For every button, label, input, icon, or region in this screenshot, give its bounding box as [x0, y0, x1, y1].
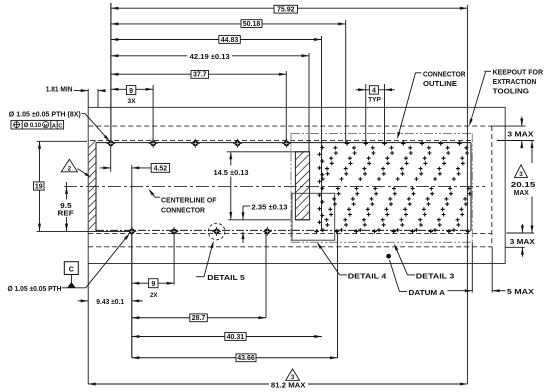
dim label 28.7	[190, 314, 208, 322]
svg-text:9.43 ±0.1: 9.43 ±0.1	[96, 297, 124, 306]
extension line right pin row bottom	[506, 232, 534, 234]
connector outline rect	[96, 142, 471, 144]
plated hole pin T3	[191, 139, 200, 148]
datum A arrow	[448, 290, 473, 292]
svg-text:C: C	[69, 267, 74, 274]
detail 4 box	[292, 193, 335, 240]
svg-text:14.5 ±0.13: 14.5 ±0.13	[214, 168, 249, 177]
dim line 43.66	[132, 357, 338, 359]
svg-text:9: 9	[151, 281, 155, 288]
dim line 20.15 MAX	[531, 141, 533, 234]
extension line from top pin 5	[285, 71, 287, 143]
svg-text:9.5: 9.5	[60, 203, 72, 210]
svg-text:3 MAX: 3 MAX	[510, 237, 535, 246]
svg-text:TYP: TYP	[368, 96, 381, 103]
dim line 9.5 REF	[66, 182, 68, 200]
dim label 81.2 MAX	[269, 379, 308, 389]
svg-text:CONNECTOR: CONNECTOR	[161, 205, 206, 214]
extension top pin1 down	[110, 143, 112, 171]
svg-text:CONNECTOR: CONNECTOR	[423, 69, 466, 78]
svg-text:4: 4	[372, 88, 376, 95]
extension stub hatch right edge up	[97, 89, 99, 107]
svg-text:37.7: 37.7	[193, 72, 207, 79]
right hatched strip (detail 4 wall)	[295, 152, 309, 220]
svg-text:40.31: 40.31	[227, 334, 245, 341]
svg-text:2: 2	[68, 166, 72, 173]
svg-text:KEEPOUT FOR: KEEPOUT FOR	[493, 68, 544, 77]
extension line right dashed bottom	[506, 246, 525, 248]
svg-text:Ø 1.05 ±0.05 PTH (8X): Ø 1.05 ±0.05 PTH (8X)	[9, 109, 82, 118]
dim line 9 3X	[111, 88, 153, 90]
plated hole pin B4	[263, 227, 272, 236]
keepout dashed line top	[90, 139, 471, 141]
svg-text:DETAIL 4: DETAIL 4	[348, 271, 387, 280]
extension line dashed edge down (5 MAX)	[491, 247, 493, 293]
svg-text:TOOLING: TOOLING	[493, 86, 530, 95]
dim line 37.7	[111, 73, 286, 75]
svg-text:DETAIL 3: DETAIL 3	[416, 271, 455, 280]
dim line 75.92	[111, 7, 468, 9]
extension line left edge down	[87, 264, 89, 385]
svg-text:MAX: MAX	[514, 188, 529, 197]
extension line top pin row left	[37, 140, 88, 142]
dim line 14.5	[230, 152, 232, 220]
extension line from bottom pin 2	[173, 231, 175, 284]
dim label 43.66	[236, 354, 256, 362]
extension line from bottom pin (43.66)	[337, 231, 339, 357]
svg-text:Ø 1.05 ±0.05 PTH: Ø 1.05 ±0.05 PTH	[8, 284, 62, 293]
dim 2.35 leader	[243, 205, 250, 207]
dim label 42.19 +-0.13	[187, 52, 232, 61]
extension line 2.35 / wall bottom	[228, 219, 291, 221]
extension stub left edge up	[87, 89, 89, 107]
dim 3 MAX bottom arrows	[521, 224, 523, 233]
svg-text:42.19 ±0.13: 42.19 ±0.13	[190, 52, 230, 61]
left hatched strip (connector end wall)	[0, 140, 185, 230]
dim 1.81 MIN arrows	[74, 90, 88, 92]
extension bottom pin1 up	[131, 165, 133, 231]
dense signal pins bottom row	[314, 229, 318, 233]
extension line from bottom pin 1	[131, 231, 133, 357]
plated hole pin T4	[233, 139, 242, 148]
dim 4.52 arrows	[100, 167, 111, 169]
svg-text:3: 3	[291, 374, 295, 381]
dim 5 MAX arrow	[492, 290, 505, 292]
feature control frame	[11, 120, 64, 129]
dim label 50.18	[241, 20, 262, 28]
flag triangle 3 (20.15)	[512, 163, 536, 179]
dim line 28.7	[132, 317, 266, 319]
dim label 9 3X	[126, 86, 135, 95]
flag triangle 2	[61, 159, 77, 172]
svg-text:19: 19	[35, 184, 43, 191]
keepout region plus-mark fill	[318, 146, 472, 233]
svg-text:9: 9	[129, 88, 133, 95]
dim label 19	[34, 182, 45, 190]
svg-text:4.52: 4.52	[154, 166, 168, 173]
leader pth 8x to pin	[85, 114, 109, 141]
svg-text:50.18: 50.18	[243, 21, 261, 28]
leader pth datum to pin	[62, 287, 86, 289]
dim label 4.52	[151, 164, 169, 173]
centerline of connector (horizontal dash-dot)	[64, 185, 485, 187]
extension line 44.83 to bottom pin	[321, 36, 323, 231]
dim 3 MAX top arrows	[521, 117, 523, 127]
extension line right top dashed	[492, 125, 526, 127]
extension line to hatch wall (42.19)	[308, 53, 310, 152]
extension line phantom edge down (datum A)	[471, 242, 473, 292]
plated hole pin T5	[282, 139, 291, 148]
dim label 4 TYP	[369, 86, 378, 94]
extension line right pin row top	[497, 140, 534, 142]
svg-text:EXTRACTION: EXTRACTION	[493, 77, 537, 86]
svg-text:REF: REF	[58, 210, 75, 217]
extension line 4 TYP left	[365, 84, 367, 143]
dim line 50.18	[111, 23, 346, 25]
dim line 40.31	[132, 336, 322, 338]
plated hole pin T1	[106, 139, 115, 148]
extension line 14.5 top / wall top	[227, 151, 310, 153]
dashed board outline rect	[88, 125, 492, 127]
plated hole pin T2	[149, 139, 158, 148]
dim line 9 2X	[132, 282, 174, 284]
svg-text:CENTERLINE OF: CENTERLINE OF	[161, 195, 217, 204]
flag triangle 3 (81.2)	[286, 369, 300, 380]
svg-text:3X: 3X	[127, 98, 136, 105]
svg-text:28.7: 28.7	[192, 315, 206, 322]
svg-text:DETAIL 5: DETAIL 5	[207, 273, 245, 282]
svg-text:75.92: 75.92	[277, 7, 295, 14]
extension line 4 TYP right	[384, 84, 386, 143]
dim line 81.2 MAX	[88, 383, 467, 385]
datum c flag	[64, 262, 78, 275]
plated hole pin B1	[127, 227, 136, 236]
dim label 37.7	[191, 71, 209, 79]
svg-text:DATUM A: DATUM A	[409, 288, 446, 297]
dim label 40.31	[225, 333, 246, 341]
plated hole pin B3	[212, 227, 221, 236]
svg-text:3 MAX: 3 MAX	[507, 130, 533, 139]
dim label 9 2X	[149, 279, 158, 288]
extension line 50.18	[345, 20, 347, 143]
svg-text:2.35 ±0.13: 2.35 ±0.13	[252, 203, 288, 212]
svg-text:44.83: 44.83	[221, 37, 239, 44]
dim 4 TYP arrows	[356, 89, 366, 91]
extension line from top pin 2	[152, 85, 154, 143]
svg-text:2X: 2X	[150, 292, 158, 299]
extension line right (75.92 / 81.2)	[466, 5, 468, 384]
detail 5 dashed circle	[208, 223, 225, 240]
svg-text:1.81 MIN: 1.81 MIN	[46, 85, 73, 94]
extension line from bottom pin 4	[265, 231, 267, 317]
svg-text:81.2 MAX: 81.2 MAX	[271, 380, 306, 389]
dim line 44.83	[111, 39, 322, 41]
dim label 14.5 +-0.13	[212, 166, 253, 177]
phantom keepout rect (extraction tooling)	[291, 133, 472, 135]
dim line 19	[39, 141, 41, 231]
svg-text:Ø 0.10: Ø 0.10	[24, 123, 42, 129]
plated hole pin B2	[170, 227, 179, 236]
dim label 75.92	[274, 5, 298, 13]
svg-text:M: M	[44, 123, 48, 128]
dim label 20.15 MAX	[509, 180, 536, 197]
dim label 44.83	[219, 36, 241, 44]
svg-text:5 MAX: 5 MAX	[507, 287, 534, 296]
extension line from top pin 1	[110, 3, 112, 143]
pcb outer outline (solid rect)	[88, 107, 505, 263]
leader triangle 2	[78, 169, 90, 177]
keepout dashed line bottom	[88, 232, 492, 234]
extension line bottom pin row left	[37, 230, 132, 232]
dim line 42.19	[111, 55, 309, 57]
dense signal pins top row	[345, 141, 349, 145]
svg-text:43.66: 43.66	[237, 355, 255, 362]
svg-text:3: 3	[519, 171, 523, 178]
svg-text:OUTLINE: OUTLINE	[423, 79, 457, 88]
dim 9.43 arrows	[78, 300, 88, 302]
